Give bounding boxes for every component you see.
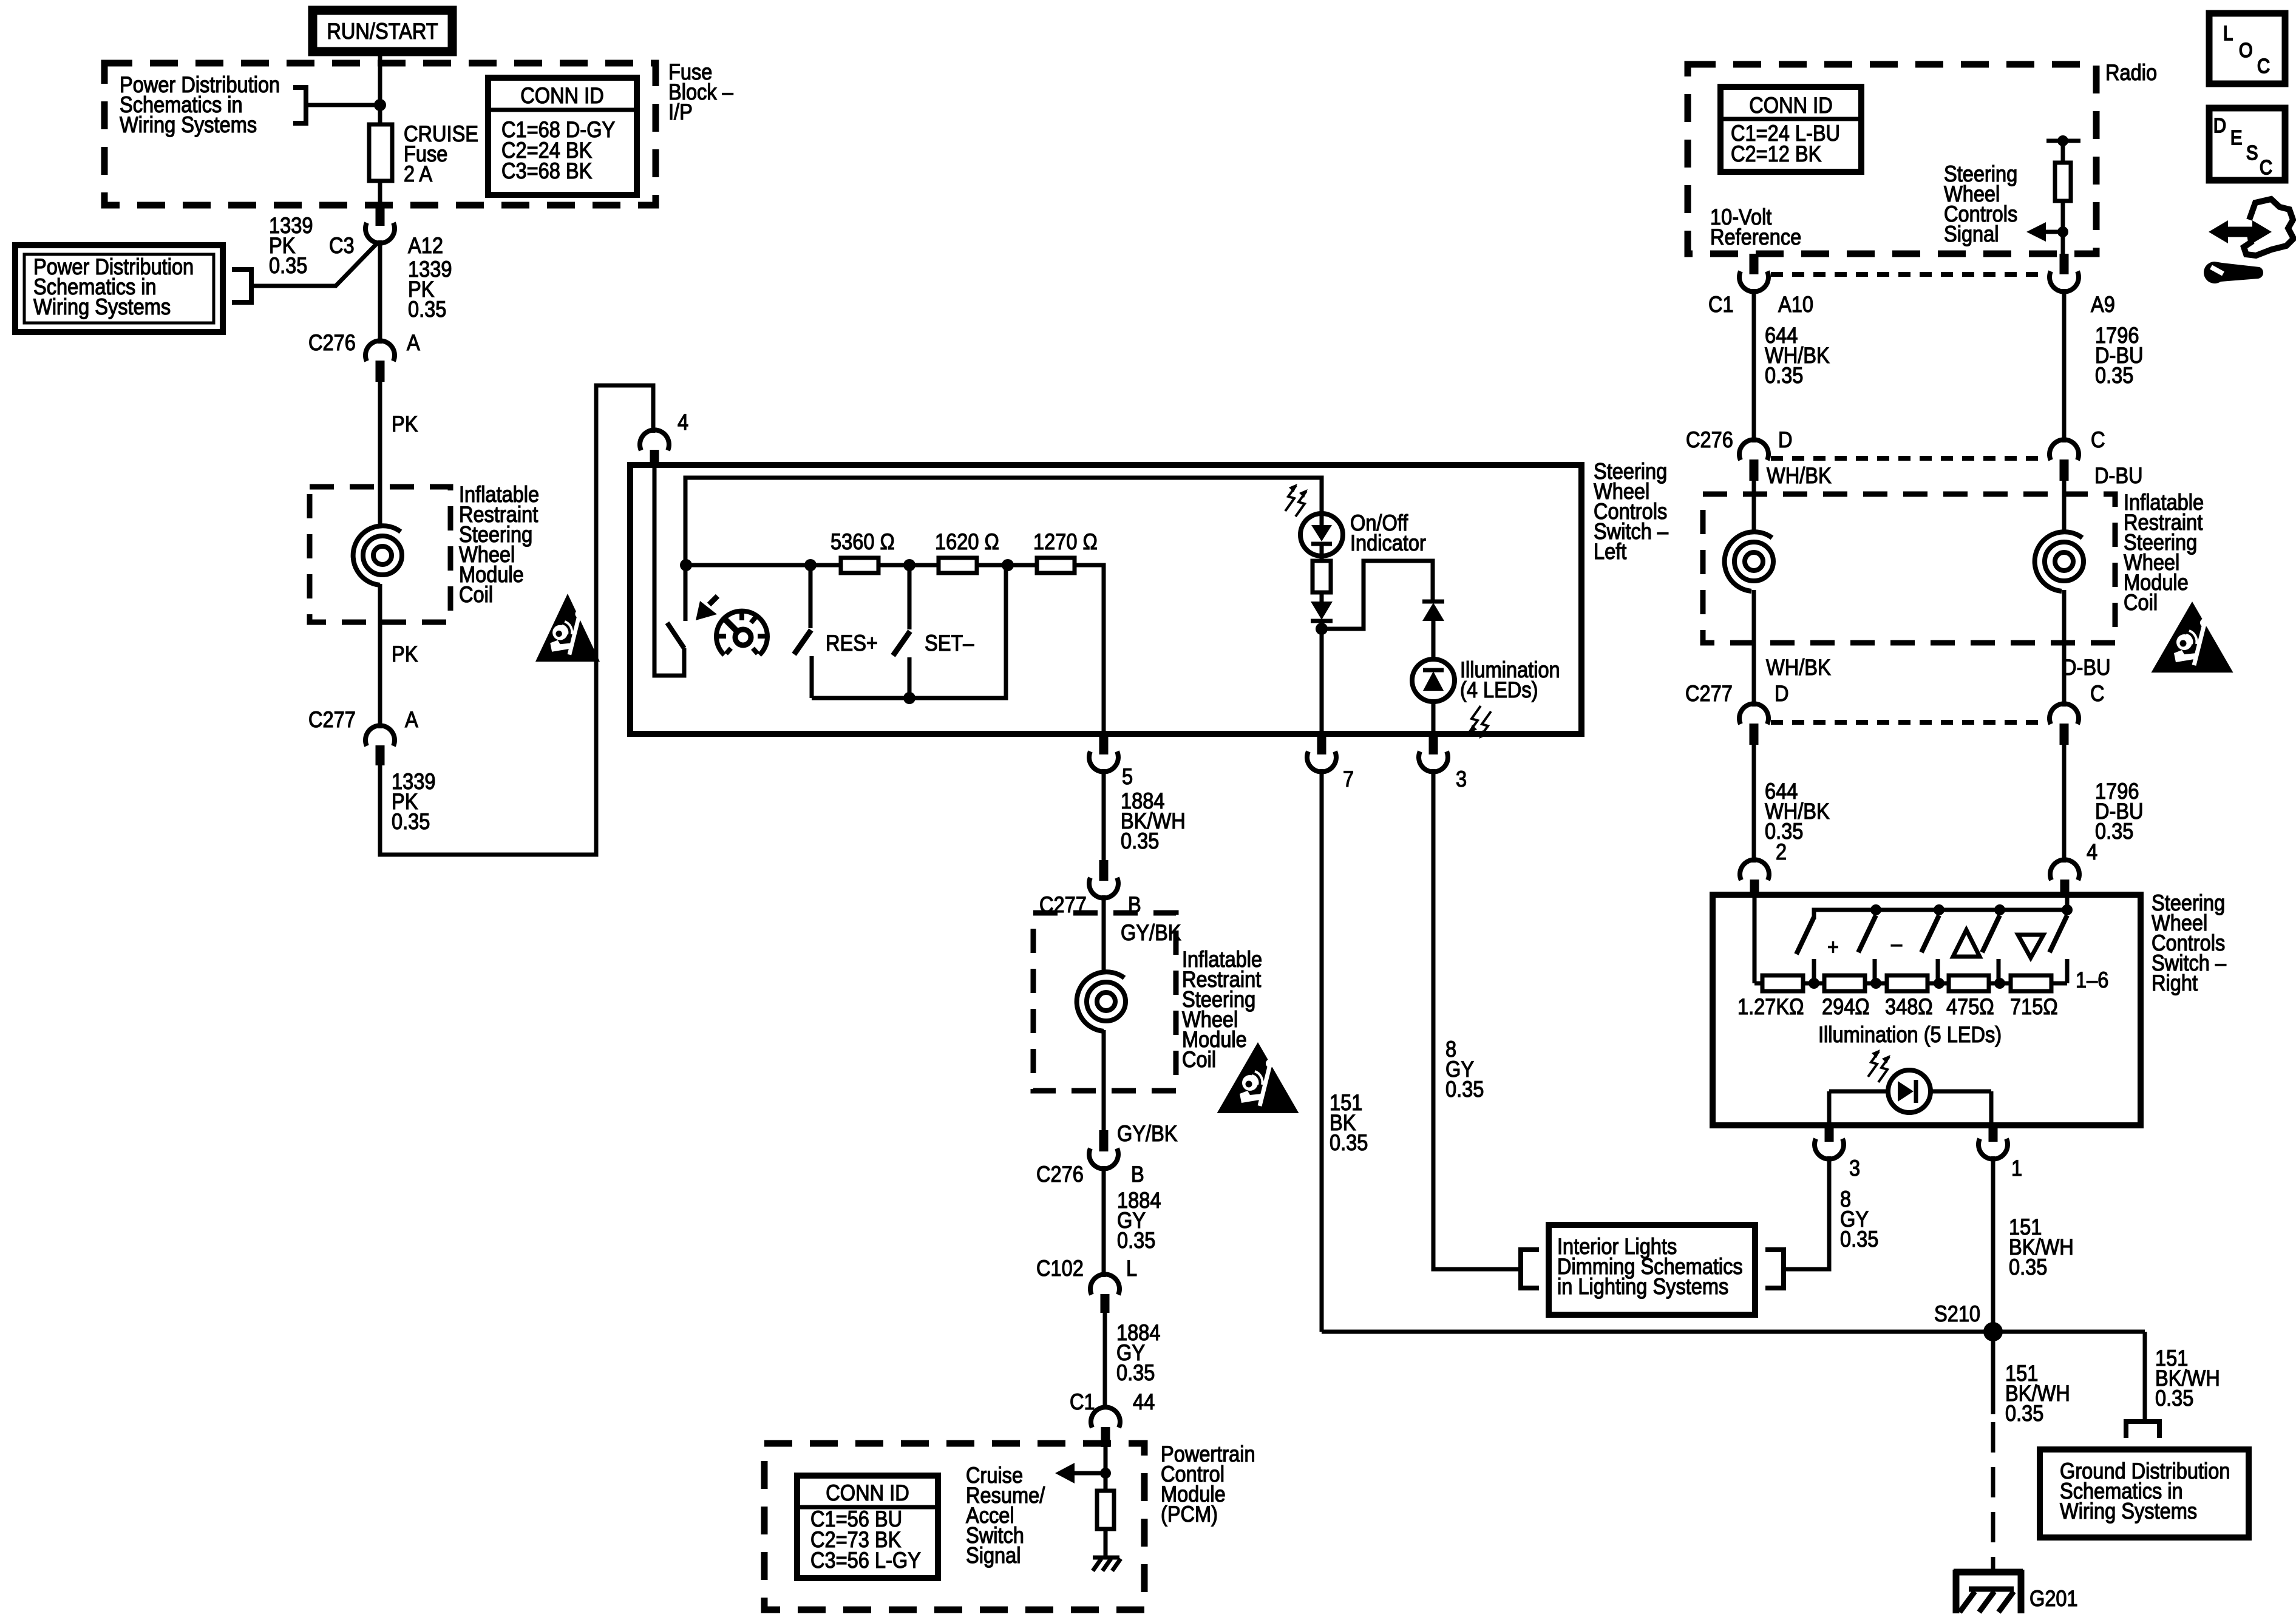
connector boundary (1771, 272, 2047, 277)
svg-text:GY/BK: GY/BK (1121, 920, 1181, 945)
press arrow (696, 601, 717, 620)
svg-text:C: C (2257, 55, 2270, 77)
CONN ID table (PCM) (797, 1476, 938, 1578)
ground distribution note box (2040, 1449, 2249, 1537)
svg-text:L: L (1126, 1256, 1137, 1281)
airbag warning triangle (right) (2152, 602, 2233, 673)
svg-text:RUN/START: RUN/START (327, 19, 438, 44)
svg-text:4: 4 (678, 410, 688, 435)
svg-text:PK: PK (392, 642, 418, 666)
svg-text:D: D (2213, 114, 2226, 137)
coil spiral (353, 526, 402, 585)
svg-text:0.35: 0.35 (1121, 829, 1159, 853)
connector C1/A10 (radio) (1750, 254, 1759, 274)
wire C276 to coil (378, 382, 382, 487)
splice diagonal to power distribution note (251, 243, 378, 286)
DESC legend box (2209, 108, 2285, 180)
svg-text:C: C (2091, 427, 2105, 452)
svg-text:–: – (1891, 931, 1903, 956)
svg-text:S210: S210 (1934, 1301, 1980, 1326)
svg-text:348Ω: 348Ω (1885, 994, 1933, 1019)
svg-text:C277: C277 (308, 707, 356, 732)
wire S210 to G201 (dashed off-page) (1991, 1332, 1995, 1414)
connector 4 (switch left) (640, 430, 669, 450)
LOC legend box (2209, 13, 2285, 84)
svg-text:0.35: 0.35 (2095, 363, 2133, 388)
svg-text:2 A: 2 A (404, 161, 433, 186)
bracket to note (293, 87, 306, 123)
speedometer icon (716, 611, 767, 655)
connector 1 (right box) (1989, 1125, 1998, 1142)
svg-text:C102: C102 (1036, 1256, 1084, 1281)
svg-text:C2=12 BK: C2=12 BK (1731, 141, 1821, 166)
svg-text:C276: C276 (1036, 1162, 1084, 1187)
airbag warning triangle (535, 594, 600, 662)
on/off switch blade (667, 623, 684, 648)
svg-text:5360 Ω: 5360 Ω (830, 529, 895, 554)
svg-text:D: D (1775, 681, 1789, 706)
svg-text:Wiring Systems: Wiring Systems (2060, 1499, 2197, 1524)
steering wheel controls switch - left box (630, 465, 1581, 734)
CONN ID table (radio) (1720, 87, 1861, 172)
branch to ground distribution (2143, 1332, 2147, 1419)
note box Power Distribution Schematics in Wiring Systems (15, 245, 223, 332)
svg-text:(PCM): (PCM) (1161, 1502, 1218, 1527)
svg-text:A10: A10 (1778, 292, 1813, 317)
resistor ladder (1754, 981, 2067, 986)
radio dashed box (1688, 64, 2096, 254)
powertrain control module (PCM) dashed box (764, 1443, 1144, 1610)
illumination LED (4 LEDs) (1412, 659, 1455, 702)
svg-text:3: 3 (1849, 1156, 1860, 1181)
svg-text:O: O (2239, 39, 2253, 61)
svg-text:0.35: 0.35 (1116, 1360, 1155, 1385)
svg-text:D: D (1778, 427, 1793, 452)
connector C276 B (1099, 1130, 1109, 1151)
svg-text:Coil: Coil (459, 582, 493, 607)
svg-text:44: 44 (1133, 1389, 1155, 1414)
fuse CRUISE 2A (369, 124, 392, 181)
svg-text:1620 Ω: 1620 Ω (935, 529, 999, 554)
svg-text:A12: A12 (408, 233, 443, 258)
connector C3 / A12 (376, 205, 385, 226)
resistor below indicator (1320, 514, 1324, 561)
svg-text:PK: PK (392, 412, 418, 436)
svg-text:C277: C277 (1685, 681, 1733, 706)
common return of RES/SET (812, 565, 1006, 698)
svg-text:D-BU: D-BU (2062, 655, 2111, 680)
svg-text:CONN ID: CONN ID (520, 83, 603, 108)
svg-text:C3=68 BK: C3=68 BK (501, 158, 592, 183)
diode below resistor (1320, 592, 1324, 602)
svg-text:4: 4 (2087, 839, 2097, 864)
inflatable restraint steering wheel module coil (left) dashed box (310, 487, 450, 622)
svg-text:1–6: 1–6 (2076, 968, 2108, 992)
junction dot (374, 99, 386, 111)
svg-text:Radio: Radio (2105, 60, 2157, 85)
switch blades + / - / up / down (1796, 915, 2067, 954)
svg-text:1.27KΩ: 1.27KΩ (1737, 994, 1804, 1019)
ground G201 (1954, 1570, 2023, 1613)
svg-text:Coil: Coil (2124, 590, 2158, 615)
internal feed line (685, 478, 1322, 621)
svg-text:C: C (2260, 156, 2272, 178)
connector 3 (right box) (1825, 1125, 1834, 1142)
svg-text:CONN ID: CONN ID (826, 1480, 909, 1505)
adjustment icon (double arrow, part outline, wrench) (2204, 199, 2294, 283)
svg-text:S: S (2246, 141, 2258, 164)
PCM pull-down resistor (1104, 1473, 1108, 1491)
connector 3 (left box) (1429, 734, 1438, 754)
svg-text:GY/BK: GY/BK (1117, 1121, 1178, 1146)
node RUN/START (ignition feed) (313, 10, 452, 52)
resistor 1620 ohm (939, 558, 977, 573)
cruise resume/accel switch signal arrow (1100, 1468, 1111, 1479)
svg-text:Right: Right (2152, 971, 2198, 995)
svg-text:E: E (2230, 126, 2242, 149)
svg-text:in Lighting Systems: in Lighting Systems (1557, 1274, 1728, 1299)
svg-text:G201: G201 (2029, 1586, 2078, 1611)
svg-text:Coil: Coil (1182, 1047, 1216, 1072)
svg-text:CONN ID: CONN ID (1749, 93, 1832, 118)
svg-text:1270 Ω: 1270 Ω (1033, 529, 1098, 554)
svg-text:C276: C276 (1686, 427, 1733, 452)
svg-text:0.35: 0.35 (408, 297, 446, 322)
svg-text:A: A (407, 330, 420, 355)
svg-text:0.35: 0.35 (2005, 1401, 2043, 1426)
svg-text:0.35: 0.35 (1117, 1228, 1155, 1253)
wire from RUN/START into fuse block (378, 56, 382, 124)
svg-text:715Ω: 715Ω (2010, 994, 2058, 1019)
svg-text:0.35: 0.35 (269, 253, 307, 278)
airbag warning triangle (center) (1217, 1042, 1299, 1113)
svg-text:B: B (1131, 1162, 1144, 1187)
svg-text:WH/BK: WH/BK (1767, 463, 1832, 488)
svg-text:C276: C276 (308, 330, 356, 355)
resistor chain bus (686, 565, 1104, 734)
svg-text:2: 2 (1776, 839, 1787, 864)
svg-text:A: A (405, 707, 418, 732)
svg-text:475Ω: 475Ω (1946, 994, 1994, 1019)
svg-text:Signal: Signal (1944, 222, 1999, 246)
inflatable restraint steering wheel module coil (right) dashed box (1703, 494, 2115, 643)
svg-text:SET–: SET– (925, 631, 974, 656)
connector 7 (1317, 734, 1326, 754)
fuse block dashed box (Fuse Block - I/P) (104, 63, 656, 205)
svg-text:0.35: 0.35 (2009, 1255, 2047, 1280)
svg-text:0.35: 0.35 (1765, 363, 1803, 388)
svg-text:1: 1 (2011, 1156, 2022, 1181)
inflatable restraint steering wheel module coil (center) dashed box (1033, 913, 1176, 1091)
svg-text:C: C (2090, 681, 2105, 706)
svg-text:3: 3 (1456, 767, 1467, 792)
illumination LED (5 LEDs) (1868, 1049, 1890, 1082)
svg-text:(4 LEDs): (4 LEDs) (1460, 677, 1538, 702)
svg-text:C1: C1 (1070, 1389, 1095, 1414)
CONN ID table (fuse block) (488, 78, 637, 195)
wire through coil (378, 487, 382, 728)
interior lights dimming note box (1549, 1225, 1755, 1315)
wire C3 to C276 (378, 240, 382, 344)
svg-text:I/P: I/P (668, 100, 693, 124)
splice S210 (1322, 1330, 2145, 1334)
svg-text:RES+: RES+ (826, 631, 878, 656)
RES+ switch (809, 565, 813, 628)
svg-text:Illumination (5 LEDs): Illumination (5 LEDs) (1818, 1022, 2002, 1047)
svg-text:294Ω: 294Ω (1822, 994, 1870, 1019)
svg-text:7: 7 (1343, 767, 1354, 792)
svg-text:5: 5 (1122, 764, 1133, 789)
internal bus (1754, 897, 2067, 983)
svg-text:L: L (2223, 22, 2233, 44)
on/off switch wire from pin 4 (654, 467, 684, 676)
svg-text:0.35: 0.35 (2095, 819, 2133, 844)
svg-text:0.35: 0.35 (2155, 1386, 2193, 1411)
svg-text:Wiring Systems: Wiring Systems (120, 112, 257, 137)
svg-text:C1: C1 (1708, 292, 1734, 317)
on/off indicator LED (1285, 484, 1308, 517)
svg-text:C3: C3 (329, 233, 355, 258)
internal ground (1093, 1558, 1121, 1571)
right bracket (1765, 1250, 1784, 1288)
svg-text:Left: Left (1594, 539, 1627, 564)
connector 5 (1099, 734, 1109, 754)
bracket of note box (232, 269, 251, 302)
svg-text:Indicator: Indicator (1350, 531, 1426, 555)
svg-text:Signal: Signal (966, 1543, 1021, 1568)
steering wheel controls switch - right box (1713, 895, 2141, 1125)
svg-text:0.35: 0.35 (1445, 1077, 1484, 1102)
svg-text:0.35: 0.35 (392, 809, 430, 834)
connector C (right col) (2050, 439, 2079, 460)
svg-text:A9: A9 (2091, 292, 2115, 317)
resistor 1270 ohm (1037, 558, 1075, 573)
svg-text:Reference: Reference (1710, 225, 1801, 249)
connector A9 (radio) (2060, 254, 2069, 274)
svg-text:WH/BK: WH/BK (1766, 655, 1831, 680)
radio internal pull-up (2046, 141, 2080, 163)
svg-text:C3=56 L-GY: C3=56 L-GY (810, 1548, 921, 1573)
svg-text:D-BU: D-BU (2094, 463, 2143, 488)
connector C277 B (1099, 860, 1109, 881)
wire C277-A routed to switch pin 4 (380, 385, 653, 855)
wire bracket to bus (306, 103, 380, 107)
branch to illumination diode (1322, 561, 1433, 629)
svg-text:+: + (1827, 935, 1839, 960)
signal arrow (2041, 230, 2063, 234)
svg-text:Wiring Systems: Wiring Systems (33, 294, 171, 319)
wire fuse to C3 (378, 181, 382, 206)
svg-text:0.35: 0.35 (1330, 1130, 1368, 1155)
SET- switch (908, 565, 912, 629)
resistor 5360 ohm (841, 558, 878, 573)
svg-text:0.35: 0.35 (1840, 1227, 1878, 1252)
diode (up) (1422, 600, 1444, 604)
fork to ground distribution note (2126, 1422, 2159, 1438)
left bracket (1521, 1250, 1539, 1288)
